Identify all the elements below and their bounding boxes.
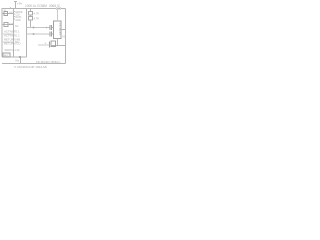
wire stub above rail VCC [15,2,17,9]
wire top supply rail [2,8,66,10]
wire from rail to R2 [30,9,32,12]
resistor R3 [29,17,33,21]
junction dot crystal b [33,33,35,35]
crystal cap plate Xa [49,25,51,30]
junction dot crystal a [33,27,35,29]
microphone MIC1 [3,53,10,57]
wire right rail [65,9,67,64]
svg-text:+9V: +9V [17,2,22,6]
pin stub 4 [14,18,16,20]
svg-text:RETURN CD: RETURN CD [4,41,20,45]
wire mid vertical [26,9,28,58]
capacitor C3 plate a [49,42,51,48]
svg-text:PIC MICRO 16F84 C: PIC MICRO 16F84 C [36,60,60,64]
resistor R2 [29,12,33,16]
svg-text:X1: X1 [62,34,66,38]
fuse F1 on rail [57,7,61,10]
svg-text:ON: ON [9,12,13,14]
svg-text:MIC: MIC [4,53,9,57]
junction dot node A [19,56,21,58]
pin stub IC left 2 [52,33,54,35]
svg-text:10K: 10K [9,23,14,26]
pin stub IC right [61,29,66,31]
wire between R2 R3 [30,15,32,17]
junction dot osc1 [46,27,48,29]
battery terminal tick [14,1,17,3]
crystal cap plate Xd [51,32,53,37]
wire node line y57 [2,56,27,58]
switch S1 [4,12,8,16]
crystal cap plate Xb [51,25,53,30]
svg-text:DATA: DATA [16,16,22,19]
svg-text:4.7K: 4.7K [34,17,40,21]
svg-text:4066 IC: 4066 IC [49,4,61,8]
svg-text:Vss: Vss [15,60,20,63]
svg-text:4.7K: 4.7K [34,11,40,15]
wire U1 bottom leg [57,39,59,46]
wire rung 1 [2,13,14,15]
crystal cap plate Xc [49,32,51,37]
svg-text:NC: NC [15,25,19,28]
wire drop to ground [20,57,22,64]
svg-text:GND: GND [16,20,21,22]
pin stub IC left 1 [52,27,54,29]
wire left rail [1,9,3,58]
junction dot U1 leg [57,45,59,47]
wire rung 3 [2,33,14,35]
svg-text:V. MICROCHIP 1994 AB: V. MICROCHIP 1994 AB [14,65,47,69]
IC U1 [54,21,62,39]
wire osc2 [27,33,50,35]
wire bottom leg to right rail [52,45,66,47]
wire below R3 [30,20,32,28]
wire rung 4 [2,41,14,43]
wire osc1 [27,27,50,29]
svg-text:SWITCH 12: SWITCH 12 [5,48,20,52]
svg-text:PIC16F84: PIC16F84 [58,23,62,35]
wire bottom ground rail [2,63,66,65]
pin stub 3 [14,16,16,18]
pin stub 2 [14,13,16,15]
svg-text:100K to COMM: 100K to COMM [25,4,47,8]
capacitor C3 boxed plate b [51,41,55,47]
wire connector bus [13,9,15,58]
wire rung 2 [2,24,14,26]
svg-text:+: + [44,42,46,46]
wire to C3 [38,44,50,46]
resistor R1 [4,23,8,27]
wire rail to U1 top [57,9,59,22]
tick above rail [10,7,12,8]
pin stub 1 [14,11,16,13]
